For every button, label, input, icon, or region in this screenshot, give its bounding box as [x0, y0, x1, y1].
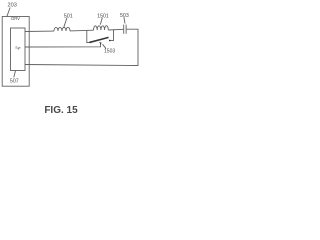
svg-text:203: 203: [8, 3, 17, 9]
svg-text:FIG. 15: FIG. 15: [44, 105, 78, 116]
svg-text:503: 503: [120, 13, 129, 19]
svg-text:1503: 1503: [104, 49, 115, 55]
svg-text:DRV: DRV: [11, 16, 20, 21]
svg-text:Syr: Syr: [15, 46, 21, 50]
svg-text:501: 501: [64, 13, 73, 19]
svg-text:1501: 1501: [97, 13, 109, 19]
svg-text:507: 507: [10, 78, 19, 84]
